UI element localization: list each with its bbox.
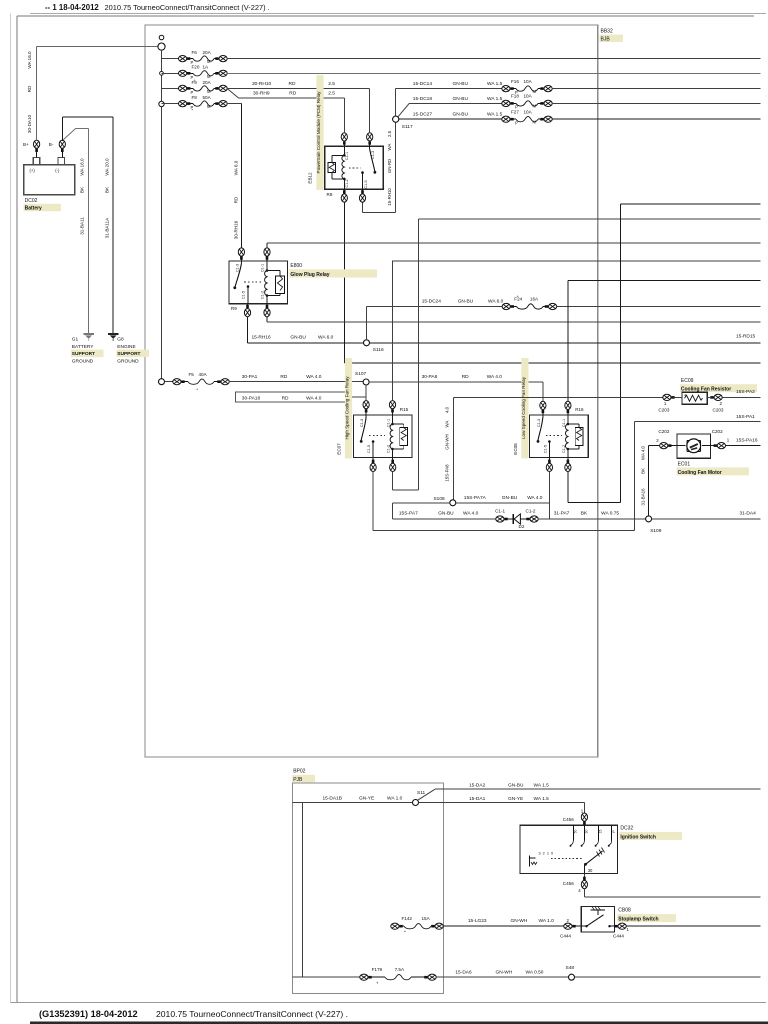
svg-text:C1-1: C1-1	[386, 419, 390, 427]
svg-text:S48: S48	[566, 965, 575, 971]
svg-text:RD: RD	[233, 196, 238, 203]
svg-text:Powertrain Control Module (PCM: Powertrain Control Module (PCM) Relay	[316, 91, 321, 174]
svg-text:C1-2: C1-2	[562, 445, 566, 453]
svg-text:WA 1.5: WA 1.5	[534, 782, 550, 788]
svg-text:15-RD15: 15-RD15	[736, 334, 756, 340]
svg-text:30-RH9: 30-RH9	[253, 90, 270, 96]
svg-text:7.5A: 7.5A	[395, 967, 405, 972]
svg-text:15A: 15A	[422, 916, 431, 921]
svg-text:C1-5: C1-5	[241, 291, 245, 299]
svg-text:G8: G8	[117, 337, 124, 343]
svg-text:WA 4.0: WA 4.0	[463, 510, 479, 516]
svg-text:EC07: EC07	[337, 443, 342, 455]
svg-text:C202: C202	[658, 429, 669, 434]
svg-text:GROUND: GROUND	[72, 358, 94, 364]
svg-text:C444: C444	[613, 934, 624, 939]
svg-text:F20: F20	[192, 65, 200, 70]
svg-text:C1-3: C1-3	[235, 264, 239, 272]
svg-text:R15: R15	[400, 407, 409, 412]
svg-text:F27: F27	[511, 109, 519, 114]
svg-text:GN-RD: GN-RD	[387, 159, 392, 173]
svg-text:P: P	[515, 120, 518, 125]
svg-text:WA 0.50: WA 0.50	[526, 970, 544, 976]
svg-text:B-: B-	[49, 142, 54, 147]
svg-text:M: M	[207, 89, 211, 94]
svg-text:Glow Plug Relay: Glow Plug Relay	[290, 272, 329, 278]
svg-text:M: M	[207, 74, 211, 79]
svg-text:C1-2: C1-2	[526, 508, 536, 513]
svg-text:Cooling Fan Motor: Cooling Fan Motor	[678, 470, 722, 476]
svg-text:WA 1.0: WA 1.0	[387, 795, 403, 801]
svg-text:20A: 20A	[203, 50, 212, 55]
svg-text:2010.75 TourneoConnect/Transit: 2010.75 TourneoConnect/TransitConnect (V…	[105, 3, 270, 12]
svg-text:R9: R9	[231, 306, 237, 311]
svg-text:GN-YE: GN-YE	[359, 795, 374, 801]
svg-text:31-PA7: 31-PA7	[554, 511, 570, 517]
svg-text:F6: F6	[192, 50, 198, 55]
svg-text:WA 4.0: WA 4.0	[640, 445, 645, 460]
svg-text:15-DA1: 15-DA1	[469, 796, 486, 802]
svg-text:GN-WH: GN-WH	[445, 434, 450, 449]
svg-text:31-BA16: 31-BA16	[640, 488, 645, 506]
svg-text:F8: F8	[192, 95, 198, 100]
svg-text:EC01: EC01	[678, 461, 691, 467]
svg-text:WA 6.0: WA 6.0	[318, 335, 334, 341]
svg-text:WA 0.75: WA 0.75	[601, 511, 619, 517]
svg-text:M: M	[207, 104, 211, 109]
svg-text:F179: F179	[372, 967, 383, 972]
svg-text:GN-WH: GN-WH	[496, 970, 513, 976]
svg-text:WA 1.5: WA 1.5	[487, 112, 503, 118]
svg-text:C203: C203	[713, 408, 724, 413]
svg-text:BP02: BP02	[293, 769, 305, 775]
svg-text:15-LG23: 15-LG23	[468, 918, 487, 924]
svg-text:WA 1.5: WA 1.5	[487, 96, 503, 102]
svg-text:C1-5: C1-5	[543, 445, 547, 453]
svg-text:(G1352391) 18-04-2012: (G1352391) 18-04-2012	[39, 1009, 138, 1019]
svg-text:DC02: DC02	[25, 198, 38, 204]
svg-text:BB32: BB32	[601, 29, 613, 35]
svg-text:GN-WH: GN-WH	[511, 918, 528, 924]
svg-text:20A: 20A	[203, 80, 212, 85]
svg-text:15-RH10: 15-RH10	[387, 188, 392, 206]
svg-text:15S-PA7A: 15S-PA7A	[464, 495, 487, 501]
svg-text:High Speed Cooling Fan Relay: High Speed Cooling Fan Relay	[345, 376, 350, 440]
svg-text:WA 4.0: WA 4.0	[487, 374, 503, 380]
svg-text:S107: S107	[355, 371, 367, 377]
svg-text:WA: WA	[387, 143, 392, 150]
svg-text:C1-5: C1-5	[364, 180, 368, 188]
svg-text:F18: F18	[511, 94, 519, 99]
svg-text:15S-PA1: 15S-PA1	[736, 414, 755, 420]
svg-text:C1-1: C1-1	[562, 419, 566, 427]
svg-text:S108: S108	[433, 496, 445, 502]
svg-text:DC32: DC32	[620, 825, 633, 831]
svg-text:30: 30	[588, 868, 593, 873]
svg-text:30: 30	[585, 830, 589, 834]
svg-text:15-DC24: 15-DC24	[422, 299, 442, 305]
svg-text:31-BA11: 31-BA11	[80, 217, 85, 235]
svg-text:EC09: EC09	[681, 378, 694, 384]
svg-text:BJB: BJB	[601, 37, 611, 43]
svg-text:SUPPORT: SUPPORT	[117, 351, 140, 357]
svg-text:GN-BU: GN-BU	[458, 299, 474, 305]
svg-text:15-DA6: 15-DA6	[455, 970, 472, 976]
svg-text:(+): (+)	[30, 168, 36, 173]
svg-text:10A: 10A	[524, 79, 533, 84]
svg-text:F142: F142	[402, 916, 413, 921]
svg-text:C203: C203	[658, 408, 669, 413]
svg-text:GN-BU: GN-BU	[453, 81, 469, 87]
svg-text:C456: C456	[563, 817, 574, 822]
svg-text:WA 6.0: WA 6.0	[233, 160, 238, 175]
svg-text:R8: R8	[327, 192, 333, 197]
svg-text:C1-2: C1-2	[260, 291, 264, 299]
svg-text:10A: 10A	[524, 94, 533, 99]
svg-text:BK: BK	[581, 511, 588, 517]
svg-text:E800: E800	[290, 263, 302, 269]
svg-text:WA 20.0: WA 20.0	[104, 158, 109, 176]
svg-text:WA 1.0: WA 1.0	[539, 918, 555, 924]
svg-text:16A: 16A	[530, 297, 539, 302]
svg-text:10A: 10A	[524, 109, 533, 114]
svg-text:4: 4	[684, 394, 686, 398]
svg-text:C1-1: C1-1	[495, 508, 505, 513]
svg-text:Ignition Switch: Ignition Switch	[620, 834, 656, 840]
svg-text:15S-PA16: 15S-PA16	[736, 438, 758, 444]
svg-text:C1-3: C1-3	[371, 151, 375, 159]
svg-text:GN-BU: GN-BU	[438, 510, 454, 516]
svg-text:50A: 50A	[203, 95, 212, 100]
svg-text:C1-3: C1-3	[360, 419, 364, 427]
svg-text:B+: B+	[23, 142, 29, 147]
svg-text:30-PA18: 30-PA18	[242, 396, 261, 402]
svg-text:GROUND: GROUND	[117, 358, 139, 364]
svg-text:15-RH16: 15-RH16	[252, 335, 272, 341]
svg-text:R16: R16	[575, 407, 584, 412]
svg-text:2.5: 2.5	[328, 81, 335, 87]
svg-text:-- 1 18-04-2012: -- 1 18-04-2012	[45, 3, 99, 12]
svg-text:BK: BK	[640, 468, 645, 474]
svg-text:(-): (-)	[55, 168, 60, 173]
svg-text:GN-YE: GN-YE	[508, 796, 523, 802]
svg-text:RD: RD	[280, 374, 287, 380]
svg-text:CB08: CB08	[618, 908, 631, 914]
svg-text:31-BA11A: 31-BA11A	[104, 217, 109, 239]
svg-text:EB12: EB12	[308, 172, 313, 184]
svg-text:Low Speed Cooling Fan Relay: Low Speed Cooling Fan Relay	[521, 376, 526, 439]
svg-text:15-DC27: 15-DC27	[413, 112, 433, 118]
svg-text:C1-3: C1-3	[537, 419, 541, 427]
svg-text:15-DC14: 15-DC14	[413, 81, 433, 87]
svg-text:Stoplamp Switch: Stoplamp Switch	[618, 917, 658, 923]
svg-text:BATTERY: BATTERY	[72, 344, 94, 350]
svg-text:WA 4.0: WA 4.0	[527, 495, 543, 501]
svg-text:*: *	[404, 930, 406, 935]
svg-text:30-DA10: 30-DA10	[27, 114, 32, 133]
svg-text:M: M	[533, 89, 537, 94]
svg-text:15S-PA8: 15S-PA8	[445, 464, 450, 482]
svg-text:S116: S116	[373, 347, 384, 353]
svg-text:15S-PA2: 15S-PA2	[736, 389, 755, 395]
svg-text:S117: S117	[402, 124, 413, 130]
svg-text:40A: 40A	[199, 372, 208, 377]
svg-text:RD: RD	[289, 81, 296, 87]
svg-text:30-PA1: 30-PA1	[242, 374, 258, 380]
svg-text:1A: 1A	[203, 65, 210, 70]
svg-text:31-DA4: 31-DA4	[740, 510, 757, 516]
svg-text:C1-2: C1-2	[345, 179, 349, 187]
svg-text:F5: F5	[189, 372, 195, 377]
svg-text:S109: S109	[650, 528, 662, 534]
svg-text:EC08: EC08	[513, 443, 518, 455]
svg-text:4.0: 4.0	[445, 406, 450, 413]
svg-text:RD: RD	[289, 90, 296, 96]
svg-text:30-PA8: 30-PA8	[422, 374, 438, 380]
svg-text:ENGINE: ENGINE	[117, 344, 135, 350]
svg-text:M: M	[533, 104, 537, 109]
svg-text:BK: BK	[80, 186, 85, 193]
svg-text:RD: RD	[462, 374, 469, 380]
svg-text:GN-BU: GN-BU	[453, 112, 469, 118]
svg-text:M: M	[207, 59, 211, 64]
svg-text:C456: C456	[563, 881, 574, 886]
svg-text:15-DA2: 15-DA2	[469, 782, 486, 788]
svg-text:Battery: Battery	[25, 205, 42, 211]
svg-text:50: 50	[574, 830, 578, 834]
svg-text:30-RH10: 30-RH10	[252, 81, 272, 87]
svg-text:GN-BU: GN-BU	[502, 495, 518, 501]
svg-text:M: M	[533, 119, 537, 124]
svg-text:GN-BU: GN-BU	[453, 96, 469, 102]
svg-text:C1-2: C1-2	[387, 445, 391, 453]
svg-text:WA 16.0: WA 16.0	[80, 158, 85, 176]
svg-text:S11: S11	[417, 790, 426, 796]
svg-text:WA 16.0: WA 16.0	[27, 51, 32, 69]
svg-text:WA 6.0: WA 6.0	[488, 299, 504, 305]
svg-text:D2: D2	[519, 524, 525, 529]
svg-text:2010.75 TourneoConnect/Transit: 2010.75 TourneoConnect/TransitConnect (V…	[156, 1009, 348, 1019]
svg-text:30-RH16: 30-RH16	[233, 220, 238, 239]
svg-text:C1-5: C1-5	[367, 445, 371, 453]
svg-text:RD: RD	[282, 396, 289, 402]
svg-text:PJB: PJB	[293, 777, 303, 783]
svg-text:C202: C202	[712, 429, 723, 434]
svg-text:F16: F16	[511, 79, 519, 84]
svg-text:15-DA1B: 15-DA1B	[323, 795, 342, 801]
svg-text:C444: C444	[560, 934, 571, 939]
svg-text:WA 1.5: WA 1.5	[487, 81, 503, 87]
svg-text:G1: G1	[72, 337, 79, 343]
svg-text:RD: RD	[27, 85, 32, 92]
svg-text:C1-1: C1-1	[345, 152, 349, 160]
svg-text:2.5: 2.5	[387, 130, 392, 137]
svg-text:GN-BU: GN-BU	[508, 782, 524, 788]
svg-text:2.5: 2.5	[328, 90, 335, 96]
svg-text:15S-PA7: 15S-PA7	[399, 510, 418, 516]
svg-text:BK: BK	[104, 186, 109, 193]
svg-text:WA 1.5: WA 1.5	[534, 796, 550, 802]
svg-text:WA 4.0: WA 4.0	[306, 374, 322, 380]
svg-text:SUPPORT: SUPPORT	[72, 351, 95, 357]
svg-text:15-DC18: 15-DC18	[413, 96, 433, 102]
svg-text:15: 15	[599, 830, 603, 834]
svg-text:3 2 1 0: 3 2 1 0	[539, 851, 554, 855]
svg-text:C1-1: C1-1	[260, 264, 264, 272]
svg-text:WA 4.0: WA 4.0	[306, 396, 322, 402]
svg-text:GN-BU: GN-BU	[290, 335, 306, 341]
svg-text:WA: WA	[445, 420, 450, 427]
